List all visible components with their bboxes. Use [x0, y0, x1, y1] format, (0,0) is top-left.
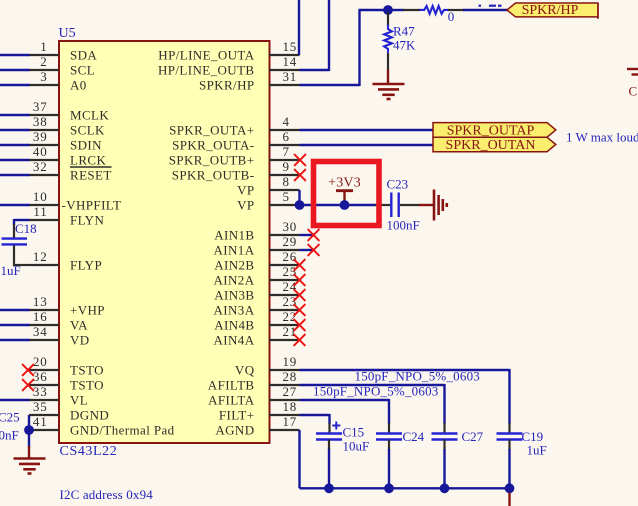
wire left edge y=70 [0, 69, 30, 71]
svg-text:37: 37 [33, 99, 48, 114]
svg-text:U5: U5 [59, 26, 76, 41]
designator U5 [59, 26, 76, 41]
svg-text:HP/LINE_OUTA: HP/LINE_OUTA [158, 48, 254, 63]
wire pin 35 DGND down to pin 41 [28, 415, 30, 430]
svg-text:DGND: DGND [70, 408, 109, 423]
pin 37 MCLK (left) [29, 99, 109, 123]
svg-text:38: 38 [33, 114, 48, 129]
junction VP node at pin 5 [295, 200, 305, 210]
wire left edge y=55 [0, 54, 30, 56]
svg-text:A0: A0 [70, 78, 87, 93]
wire left edge y=85 [0, 84, 30, 86]
svg-text:SPKR_OUTA+: SPKR_OUTA+ [169, 123, 254, 138]
no-connect X pin 22 [294, 319, 306, 331]
power port +3V3 [328, 176, 361, 204]
wire pin 4 to port SPKR_OUTAP [300, 129, 434, 131]
no-connect X pin 25 [294, 274, 306, 286]
pin 34 VD (left) [29, 324, 90, 348]
svg-text:31: 31 [283, 69, 298, 84]
capacitor C27 [432, 434, 458, 440]
value 100nF of C25 (clipped) [0, 428, 19, 443]
pin 38 SCLK (left) [29, 114, 105, 138]
pin 10 -VHPFILT (left) [29, 189, 121, 213]
svg-text:AIN3B: AIN3B [214, 288, 254, 303]
svg-text:47K: 47K [393, 38, 416, 53]
no-connect X pin 29 [308, 244, 320, 256]
svg-text:AIN2B: AIN2B [214, 258, 254, 273]
svg-text:2: 2 [40, 54, 47, 69]
wire pin 28 AFILTB to C27 branch [300, 384, 445, 434]
pin 18 FILT+ (right) [219, 399, 300, 423]
svg-text:SDA: SDA [70, 48, 97, 63]
pin 15 HP/LINE_OUTA (right) [158, 39, 299, 63]
bottom bus wire [300, 487, 510, 489]
svg-text:40: 40 [33, 144, 48, 159]
svg-text:34: 34 [33, 324, 48, 339]
pin 14 HP/LINE_OUTB (right) [158, 54, 300, 78]
designator C27 [462, 429, 484, 444]
pin 26 AIN2B (right) [214, 249, 299, 273]
wire pin 29 stub extension [300, 249, 314, 251]
svg-text:FLYP: FLYP [70, 258, 102, 273]
svg-text:32: 32 [33, 159, 48, 174]
svg-text:35: 35 [33, 399, 48, 414]
no-connect X pin 26 [294, 259, 306, 271]
resistor R48 0 ohm [420, 6, 449, 14]
pin 23 AIN3A (right) [214, 294, 300, 318]
value 10uF of C15 [343, 439, 370, 454]
wire C18 to pin 12 FLYP [14, 245, 30, 266]
wire left edge y=160 [0, 159, 30, 161]
value label 150pF_NPO_5%_0603 (AFILTA) [313, 384, 438, 399]
wire left edge y=400 [0, 399, 30, 401]
pin 24 AIN3B (right) [214, 279, 299, 303]
ground GND right of C23 [434, 190, 447, 221]
designator C19 [522, 429, 544, 444]
pin 27 AFILTA (right) [208, 384, 299, 408]
svg-text:SDIN: SDIN [70, 138, 102, 153]
svg-text:12: 12 [33, 249, 48, 264]
svg-text:29: 29 [283, 234, 298, 249]
ground GND near C25 [14, 459, 46, 474]
svg-text:MCLK: MCLK [70, 108, 109, 123]
pin 28 AFILTB (right) [208, 369, 300, 393]
svg-text:C24: C24 [403, 429, 425, 444]
wire left edge y=205 [0, 204, 30, 206]
wire pin 11 FLYN to C18 [14, 219, 30, 238]
wire left edge y=145 [0, 144, 30, 146]
svg-text:SPKR_OUTAN: SPKR_OUTAN [446, 138, 536, 153]
svg-text:CS43L22: CS43L22 [60, 444, 118, 459]
pin 36 TSTO (left) [29, 369, 104, 393]
wire left edge y=130 [0, 129, 30, 131]
svg-text:150pF_NPO_5%_0603: 150pF_NPO_5%_0603 [355, 369, 480, 384]
svg-text:SPKR/HP: SPKR/HP [522, 3, 579, 18]
svg-text:9: 9 [283, 159, 290, 174]
capacitor C15 polarized [316, 422, 342, 440]
wire pin 30 stub extension [300, 234, 314, 236]
svg-text:C27: C27 [462, 429, 484, 444]
svg-text:1 W max loud: 1 W max loud [566, 130, 638, 145]
junction +3V3 node [340, 200, 350, 210]
pin 3 A0 (left) [29, 69, 87, 93]
svg-text:7: 7 [283, 144, 290, 159]
svg-text:C25: C25 [0, 410, 20, 425]
svg-text:AIN4B: AIN4B [214, 318, 254, 333]
pin 31 SPKR/HP (right) [199, 69, 300, 93]
wire pin 18 FILT+ to C15 branch [300, 414, 330, 434]
svg-text:SPKR_OUTB+: SPKR_OUTB+ [169, 153, 255, 168]
svg-text:3: 3 [40, 69, 47, 84]
svg-text:11: 11 [33, 204, 47, 219]
value 47K of R47 [393, 38, 416, 53]
svg-text:SPKR/HP: SPKR/HP [199, 78, 255, 93]
svg-text:AIN4A: AIN4A [214, 333, 255, 348]
value 0 of R48 [448, 9, 455, 24]
svg-text:18: 18 [283, 399, 298, 414]
pin 9 SPKR_OUTB- (right) [172, 159, 300, 183]
pin 19 VQ (right) [235, 354, 300, 378]
svg-text:19: 19 [283, 354, 298, 369]
pin 8 VP (right) [237, 174, 299, 198]
wire pin 15 up to top edge [298, 0, 300, 55]
no-connect X pin 7 [294, 154, 306, 166]
wire pin 19 VQ to C19 branch [300, 369, 510, 434]
svg-text:RESET: RESET [70, 168, 112, 183]
resistor R47 [384, 25, 392, 53]
wire C27 to bottom bus [443, 440, 445, 489]
svg-text:I2C address 0x94: I2C address 0x94 [60, 487, 154, 502]
svg-text:VD: VD [70, 333, 90, 348]
pin 16 VA (left) [29, 309, 88, 333]
svg-text:+3V3: +3V3 [328, 176, 361, 191]
pin 33 VL (left) [29, 384, 88, 408]
pin 6 SPKR_OUTA- (right) [172, 129, 299, 153]
value 100nF of C23 [387, 218, 420, 233]
wire R47 to ground [387, 53, 389, 84]
pin 39 SDIN (left) [29, 129, 102, 153]
pin 21 AIN4A (right) [214, 324, 300, 348]
wire C24 to bottom bus [388, 440, 390, 489]
svg-text:AIN1A: AIN1A [214, 243, 255, 258]
value label 150pF_NPO_5%_0603 (AFILTB) [355, 369, 480, 384]
svg-text:SCL: SCL [70, 63, 95, 78]
svg-text:AGND: AGND [215, 423, 254, 438]
svg-text:28: 28 [283, 369, 298, 384]
pin 40 LRCK (left) [29, 144, 106, 168]
clipped designator C at right edge [629, 83, 638, 98]
svg-text:VP: VP [237, 198, 254, 213]
port SPKR_OUTAN [433, 137, 556, 153]
wire pin 27 AFILTA to C24 branch [300, 399, 390, 434]
wire C15 to bottom bus [328, 440, 330, 489]
pin 20 TSTO (left) [29, 354, 104, 378]
wire pin 8 VP down to pin 5 [298, 190, 300, 205]
wire left edge y=115 [0, 114, 30, 116]
svg-text:17: 17 [283, 414, 298, 429]
wire left edge y=325 [0, 324, 30, 326]
wire R48 to SPKR/HP port [448, 9, 508, 11]
clipped designator text fragments at top [479, 5, 502, 7]
svg-text:5: 5 [283, 189, 290, 204]
svg-text:150pF_NPO_5%_0603: 150pF_NPO_5%_0603 [313, 384, 438, 399]
junction bus at C27 [440, 483, 450, 493]
designator C15 [343, 425, 365, 440]
svg-text:TSTO: TSTO [70, 363, 104, 378]
capacitor C24 [376, 434, 402, 440]
svg-text:16: 16 [33, 309, 48, 324]
pin 2 SCL (left) [29, 54, 95, 78]
note I2C address 0x94 [60, 487, 154, 502]
svg-text:8: 8 [283, 174, 290, 189]
svg-text:20: 20 [33, 354, 48, 369]
pin 41 GND/Thermal Pad (left) [29, 414, 175, 438]
designator C24 [403, 429, 425, 444]
svg-text:VP: VP [237, 183, 254, 198]
svg-text:C: C [629, 83, 638, 98]
no-connect X pin 30 [308, 229, 320, 241]
no-connect X pin 20 [22, 364, 34, 376]
svg-text:FILT+: FILT+ [219, 408, 255, 423]
junction bus at C24 [384, 483, 394, 493]
pin 22 AIN4B (right) [214, 309, 299, 333]
capacitor C18 [2, 239, 28, 245]
value 1uF of C18 [1, 263, 21, 278]
no-connect X pin 9 [294, 169, 306, 181]
svg-text:10: 10 [33, 189, 48, 204]
no-connect X pin 21 [294, 334, 306, 346]
svg-text:100nF: 100nF [387, 218, 420, 233]
svg-text:6: 6 [283, 129, 290, 144]
svg-text:SPKR_OUTA-: SPKR_OUTA- [172, 138, 254, 153]
designator C18 [15, 221, 37, 236]
wire VP node to C23 [300, 204, 391, 206]
svg-text:13: 13 [33, 294, 48, 309]
pin 11 FLYN (left) [29, 204, 104, 228]
svg-text:AFILTA: AFILTA [208, 393, 255, 408]
svg-text:15: 15 [283, 39, 298, 54]
svg-text:R47: R47 [393, 24, 415, 39]
designator C25 (clipped) [0, 410, 20, 425]
svg-text:AIN1B: AIN1B [214, 228, 254, 243]
svg-text:TSTO: TSTO [70, 378, 104, 393]
svg-text:SCLK: SCLK [70, 123, 105, 138]
designator C23 [387, 177, 409, 192]
junction at pin 41 node [24, 425, 34, 435]
pin 7 SPKR_OUTB+ (right) [169, 144, 300, 168]
pin 5 VP (right) [237, 189, 299, 213]
pin 35 DGND (left) [29, 399, 109, 423]
wire bus to ground (clipped at bottom) [508, 493, 510, 506]
op-amp U5 CS43L22 body [59, 41, 270, 443]
svg-text:10uF: 10uF [343, 439, 370, 454]
designator R47 [393, 24, 415, 39]
wire C23 to ground [400, 204, 434, 206]
pin 12 FLYP (left) [29, 249, 102, 273]
ground GND under R47 [373, 84, 405, 99]
svg-text:41: 41 [33, 414, 48, 429]
highlight box around +3V3 [314, 162, 380, 226]
svg-text:33: 33 [33, 384, 48, 399]
wire left edge y=340 [0, 339, 30, 341]
no-connect X pin 23 [294, 304, 306, 316]
wire pin 17 AGND down to bottom bus [298, 430, 300, 488]
pin 25 AIN2A (right) [214, 264, 300, 288]
wire C19 to bottom bus [508, 440, 510, 489]
wire junction to resistor R48 [388, 9, 420, 11]
capacitor C23 [391, 193, 398, 218]
svg-text:C15: C15 [343, 425, 365, 440]
pin 17 AGND (right) [215, 414, 299, 438]
svg-text:C18: C18 [15, 221, 37, 236]
svg-text:-VHPFILT: -VHPFILT [62, 198, 122, 213]
wire junction down to R47 [387, 12, 389, 26]
svg-text:AIN3A: AIN3A [214, 303, 255, 318]
svg-text:+VHP: +VHP [70, 303, 105, 318]
svg-text:30: 30 [283, 219, 298, 234]
svg-text:SPKR_OUTAP: SPKR_OUTAP [447, 123, 535, 138]
pin 29 AIN1A (right) [214, 234, 300, 258]
pin 30 AIN1B (right) [214, 219, 299, 243]
svg-text:100nF: 100nF [0, 428, 19, 443]
wire left edge y=175 [0, 174, 30, 176]
junction bus at C19 [505, 483, 515, 493]
clipped ground symbol at right edge [627, 69, 638, 75]
pin 1 SDA (left) [29, 39, 97, 63]
wire pin 41 node down to ground [28, 433, 30, 459]
svg-text:1uF: 1uF [527, 443, 547, 458]
wire pin 31 right and up to SPKR/HP net [300, 10, 360, 86]
value 1uF of C19 [527, 443, 547, 458]
wire pin 6 to port SPKR_OUTAN [300, 144, 434, 146]
junction bus at C15 [324, 483, 334, 493]
wire pin 14 right and up to top edge [300, 0, 330, 71]
svg-text:FLYN: FLYN [70, 213, 104, 228]
value CS43L22 [60, 444, 118, 459]
svg-text:AIN2A: AIN2A [214, 273, 255, 288]
svg-text:VL: VL [70, 393, 88, 408]
svg-text:VA: VA [70, 318, 88, 333]
svg-text:AFILTB: AFILTB [208, 378, 255, 393]
svg-text:39: 39 [33, 129, 48, 144]
svg-text:LRCK: LRCK [70, 153, 106, 168]
wire top net to junction [359, 9, 390, 11]
svg-text:36: 36 [33, 369, 48, 384]
svg-text:GND/Thermal Pad: GND/Thermal Pad [70, 423, 175, 438]
svg-text:C23: C23 [387, 177, 409, 192]
port SPKR/HP [507, 3, 598, 19]
no-connect X pin 24 [294, 289, 306, 301]
capacitor C19 [497, 434, 523, 440]
pin 13 +VHP (left) [29, 294, 105, 318]
no-connect X pin 36 [22, 379, 34, 391]
svg-text:VQ: VQ [235, 363, 255, 378]
pin 4 SPKR_OUTA+ (right) [169, 114, 299, 138]
junction top net [383, 5, 393, 15]
port SPKR_OUTAP [433, 123, 556, 139]
svg-text:0: 0 [448, 9, 455, 24]
svg-text:14: 14 [283, 54, 298, 69]
note 1 W max loudness [566, 130, 638, 145]
svg-text:27: 27 [283, 384, 298, 399]
svg-text:HP/LINE_OUTB: HP/LINE_OUTB [158, 63, 255, 78]
pin 32 RESET (left) [29, 159, 112, 183]
svg-text:4: 4 [283, 114, 290, 129]
overline for RESET pin name [70, 166, 112, 168]
svg-text:SPKR_OUTB-: SPKR_OUTB- [172, 168, 255, 183]
wire left edge y=310 [0, 309, 30, 311]
svg-text:1: 1 [40, 39, 47, 54]
